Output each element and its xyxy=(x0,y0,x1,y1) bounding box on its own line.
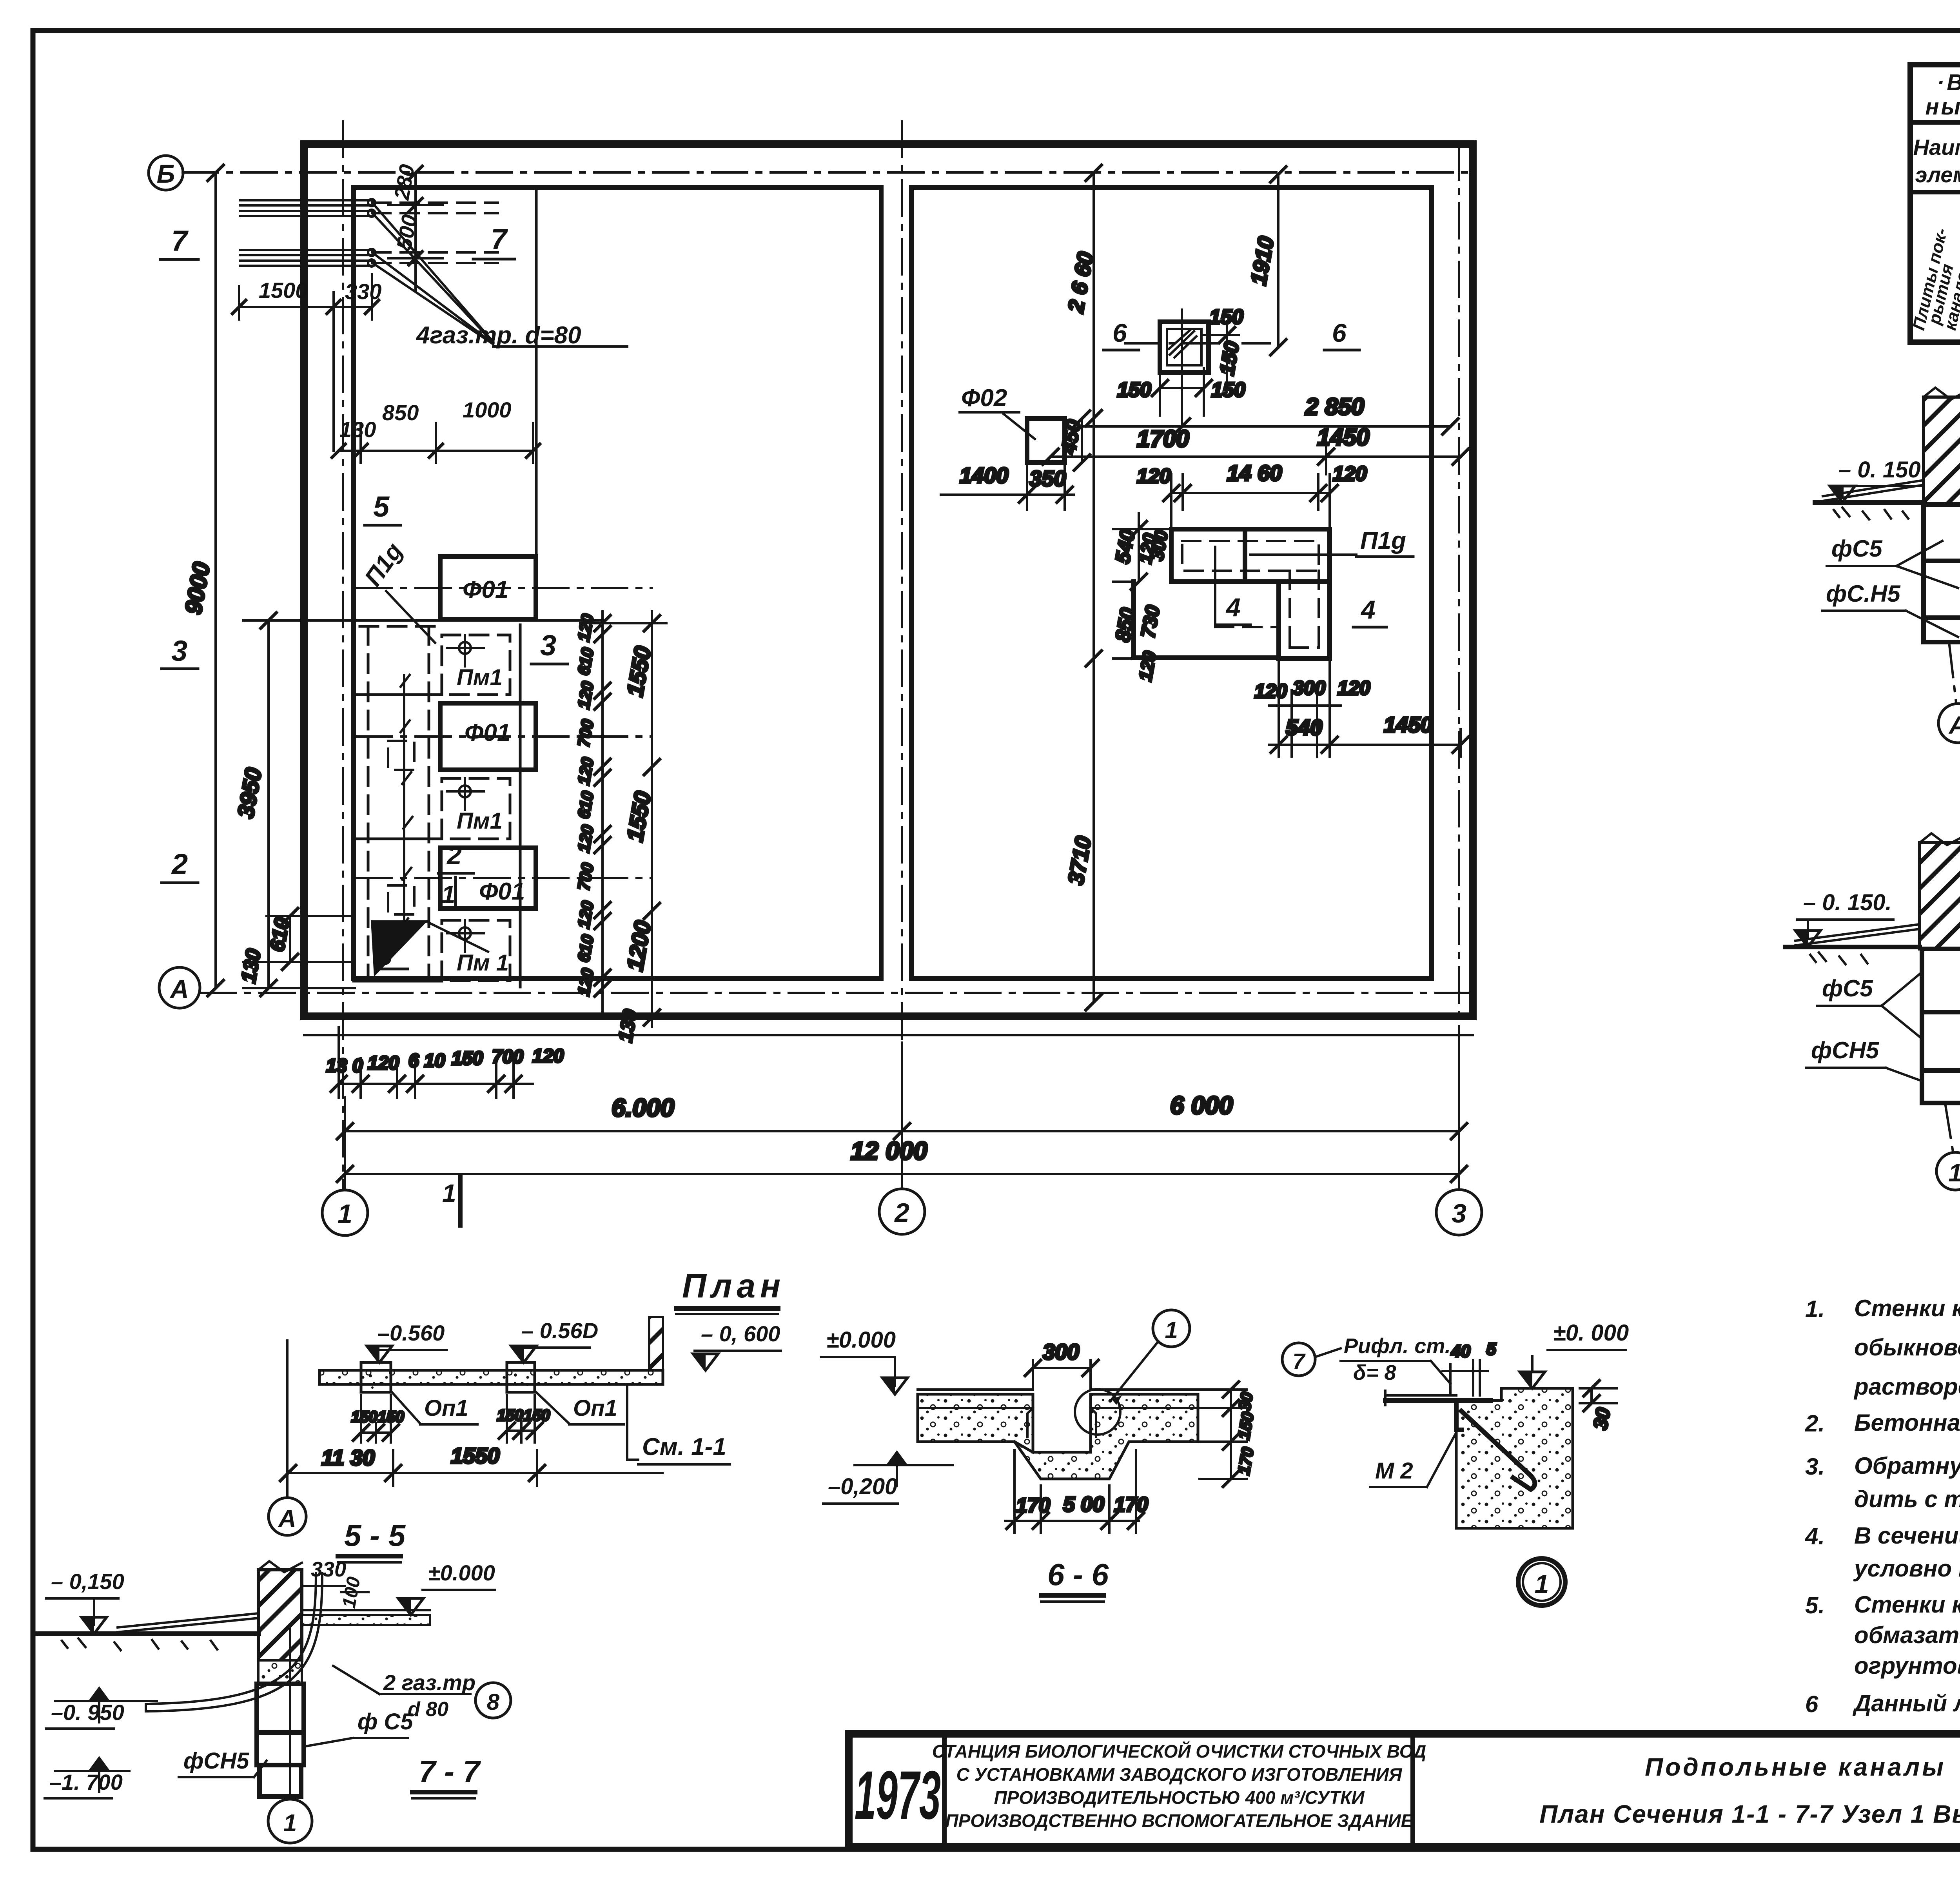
svg-text:1: 1 xyxy=(1948,1159,1960,1187)
section mark 2 left xyxy=(162,848,198,883)
foundation blocks xyxy=(1924,504,1960,642)
ground line xyxy=(34,1613,258,1650)
dims below L channel xyxy=(1254,659,1468,756)
svg-text:120: 120 xyxy=(1254,680,1287,702)
axis B circle xyxy=(149,156,183,190)
svg-text:150: 150 xyxy=(524,1407,550,1424)
svg-text:1550: 1550 xyxy=(451,1443,500,1468)
axis circle 3 xyxy=(1436,1190,1482,1235)
svg-text:1: 1 xyxy=(1165,1317,1178,1343)
svg-text:А: А xyxy=(278,1505,296,1532)
channel slash marks xyxy=(399,675,412,930)
svg-text:5: 5 xyxy=(1486,1339,1496,1359)
svg-text:3: 3 xyxy=(171,635,187,667)
svg-text:12 000: 12 000 xyxy=(851,1137,927,1165)
elevation -0.600 xyxy=(693,1321,781,1370)
svg-text:6: 6 xyxy=(1332,318,1347,347)
right room inner wall xyxy=(911,187,1432,978)
svg-text:30: 30 xyxy=(1589,1406,1615,1431)
dim 1910 2660 verticals xyxy=(1063,165,1286,1010)
dim 280 500 vertical xyxy=(388,163,443,290)
floor slab xyxy=(302,1615,430,1625)
label P1g slanted xyxy=(359,538,435,643)
dim 120 1460 120 xyxy=(1137,461,1367,533)
left dims of L channel xyxy=(1111,513,1172,683)
svg-text:3: 3 xyxy=(1452,1199,1466,1228)
circle 1 xyxy=(1936,1103,1960,1190)
svg-text:120: 120 xyxy=(1333,463,1367,485)
svg-text:4газ.тр. d=80: 4газ.тр. d=80 xyxy=(416,322,581,349)
svg-text:6.000: 6.000 xyxy=(612,1094,674,1122)
right room: hatch square 6-6 xyxy=(1125,310,1270,427)
svg-text:4.: 4. xyxy=(1805,1523,1825,1549)
svg-text:2 850: 2 850 xyxy=(1305,394,1364,420)
svg-text:3.: 3. xyxy=(1805,1453,1825,1480)
title 5-5 xyxy=(338,1518,406,1562)
svg-text:Оп1: Оп1 xyxy=(424,1395,468,1421)
circle 1 xyxy=(268,1625,312,1843)
svg-text:2 газ.тр: 2 газ.тр xyxy=(383,1670,475,1695)
svg-text:Ф01: Ф01 xyxy=(465,719,510,746)
label fCH5 xyxy=(179,1748,267,1777)
elevation -0.950 xyxy=(46,1686,157,1729)
svg-text:–0.560: –0.560 xyxy=(377,1321,445,1345)
label P1g right xyxy=(1250,527,1413,557)
svg-text:±0. 000: ±0. 000 xyxy=(1553,1320,1629,1346)
elevation -0.560 right xyxy=(511,1318,598,1362)
svg-text:ПРОИЗВОДИТЕЛЬНОСТЬЮ 400 м³/СУТ: ПРОИЗВОДИТЕЛЬНОСТЬЮ 400 м³/СУТКИ xyxy=(994,1787,1365,1808)
svg-text:5: 5 xyxy=(377,940,393,971)
svg-text:330: 330 xyxy=(345,279,381,304)
label fS5 xyxy=(1827,535,1958,588)
left room inner wall xyxy=(354,187,881,978)
axis B line xyxy=(183,171,1473,174)
4-4 labels xyxy=(1217,593,1387,627)
svg-text:С УСТАНОВКАМИ ЗАВОДСКОГО ИЗГОТ: С УСТАНОВКАМИ ЗАВОДСКОГО ИЗГОТОВЛЕНИЯ xyxy=(956,1764,1403,1785)
dim 1500 330 xyxy=(231,274,381,451)
svg-text:План Сечения 1-1 - 7-7 Уз: План Сечения 1-1 - 7-7 Узел 1 Выборка xyxy=(1539,1800,1960,1828)
elevation -0.150 xyxy=(46,1569,124,1634)
svg-text:150: 150 xyxy=(1209,306,1243,328)
svg-text:фС5: фС5 xyxy=(1822,975,1873,1001)
svg-text:5: 5 xyxy=(373,490,390,523)
svg-text:120: 120 xyxy=(1338,677,1370,699)
svg-text:В сечений 5-5 плиты покрыт: В сечений 5-5 плиты покрытия канала xyxy=(1854,1522,1960,1549)
svg-text:6: 6 xyxy=(1805,1691,1818,1717)
svg-text:2: 2 xyxy=(894,1198,909,1228)
ground line xyxy=(1785,924,1920,964)
label M2 xyxy=(1370,1435,1455,1487)
axis circle 1 xyxy=(322,1190,368,1235)
svg-text:См. 1-1: См. 1-1 xyxy=(642,1433,726,1460)
svg-text:·Выборка сборных железобетон: ·Выборка сборных железобетон- xyxy=(1937,70,1960,95)
svg-text:7: 7 xyxy=(171,225,189,257)
svg-text:дить с тщательным послойны: дить с тщательным послойным уплотнением. xyxy=(1854,1486,1960,1512)
dim chain A 120-610 xyxy=(574,611,610,1018)
svg-text:1973: 1973 xyxy=(855,1757,941,1834)
svg-text:ПРОИЗВОДСТВЕННО ВСПОМОГАТЕЛЬНО: ПРОИЗВОДСТВЕННО ВСПОМОГАТЕЛЬНОЕ ЗДАНИЕ xyxy=(946,1810,1414,1831)
vertical line right of F01 column xyxy=(535,187,538,557)
svg-text:СТАНЦИЯ БИОЛОГИЧЕСКОЙ ОЧИСТКИ: СТАНЦИЯ БИОЛОГИЧЕСКОЙ ОЧИСТКИ СТОЧНЫХ ВО… xyxy=(932,1741,1426,1761)
section mark 7 left xyxy=(160,225,198,259)
svg-text:–0. 950: –0. 950 xyxy=(51,1700,124,1725)
svg-text:Рифл. ст.: Рифл. ст. xyxy=(1344,1334,1451,1358)
svg-text:150: 150 xyxy=(497,1407,523,1424)
slab xyxy=(319,1370,663,1384)
axis 3 line xyxy=(1458,144,1460,1190)
title 6-6 xyxy=(1041,1557,1109,1602)
elevation +-0.000 xyxy=(398,1560,495,1615)
dim 12.000 xyxy=(337,1039,1467,1188)
concrete block xyxy=(1456,1388,1573,1528)
svg-text:1: 1 xyxy=(283,1810,297,1837)
dims around hatch square xyxy=(1117,306,1245,415)
svg-text:условно не показаны.: условно не показаны. xyxy=(1853,1555,1960,1582)
svg-text:14 60: 14 60 xyxy=(1227,461,1282,485)
svg-text:120: 120 xyxy=(532,1046,564,1067)
svg-text:6 000: 6 000 xyxy=(1170,1091,1233,1119)
right pillar hatched xyxy=(649,1317,663,1370)
svg-text:1000: 1000 xyxy=(463,397,512,422)
elevation -0.150 xyxy=(1830,457,1923,503)
dim chain B 1550 xyxy=(580,611,666,1044)
svg-text:Ф02: Ф02 xyxy=(961,385,1007,412)
dim 1130 1550 xyxy=(280,1443,662,1486)
dim 2850 xyxy=(1080,394,1458,434)
F02 square xyxy=(960,385,1065,463)
title block xyxy=(849,1734,1960,1847)
wall hatched xyxy=(258,1570,302,1660)
pipes curved xyxy=(146,1573,322,1711)
dims 40 5 xyxy=(1443,1339,1496,1395)
gas pipes xyxy=(240,199,498,267)
svg-text:фС5: фС5 xyxy=(1831,535,1883,562)
callout circle 1 xyxy=(1112,1310,1190,1405)
Pm1 square 3 xyxy=(442,920,510,981)
svg-text:1: 1 xyxy=(442,1179,456,1207)
title 7-7 xyxy=(412,1754,481,1798)
svg-text:фСН5: фСН5 xyxy=(183,1748,249,1774)
svg-text:Оп1: Оп1 xyxy=(573,1395,617,1421)
svg-text:1450: 1450 xyxy=(1317,424,1369,450)
svg-text:А: А xyxy=(1948,711,1960,739)
foundation blocks xyxy=(1922,949,1960,1103)
svg-text:130: 130 xyxy=(339,417,376,442)
elevation -0.200 xyxy=(823,1450,953,1504)
labels Op1 xyxy=(392,1392,477,1424)
dim 300 xyxy=(1025,1339,1098,1388)
F01 block 1 xyxy=(440,557,536,619)
svg-text:5 00: 5 00 xyxy=(1063,1493,1104,1516)
svg-text:Пм 1: Пм 1 xyxy=(457,950,509,976)
svg-text:540: 540 xyxy=(1286,715,1322,740)
elevation -1.700 xyxy=(45,1756,129,1798)
elevation -0.560 left xyxy=(367,1321,447,1362)
svg-text:300: 300 xyxy=(1293,677,1326,699)
svg-text:850: 850 xyxy=(382,400,419,425)
Pm1 square 2 xyxy=(442,778,510,839)
label fC5 xyxy=(304,1709,413,1747)
svg-text:8: 8 xyxy=(487,1689,500,1715)
svg-text:– 0. 150.: – 0. 150. xyxy=(1803,890,1892,915)
svg-text:–0,200: –0,200 xyxy=(828,1474,897,1499)
svg-text:1: 1 xyxy=(1535,1569,1549,1598)
svg-text:Стенки каналов, соприкасаю: Стенки каналов, соприкасающиеся с грунто… xyxy=(1854,1591,1960,1618)
footing line below plan xyxy=(304,1034,1473,1036)
svg-text:1.: 1. xyxy=(1805,1296,1825,1322)
circle A xyxy=(1938,642,1960,743)
svg-text:П1g: П1g xyxy=(1360,527,1406,554)
section cut 1 mark bottom xyxy=(442,1176,460,1225)
svg-text:План: План xyxy=(682,1267,785,1305)
svg-text:330: 330 xyxy=(311,1558,346,1581)
svg-text:150: 150 xyxy=(452,1048,483,1069)
svg-text:±0.000: ±0.000 xyxy=(826,1327,896,1353)
Pm1 square 1 xyxy=(442,635,510,695)
svg-text:6: 6 xyxy=(1112,318,1127,347)
svg-text:120: 120 xyxy=(1137,465,1171,488)
svg-text:Б: Б xyxy=(157,159,175,188)
svg-text:А: А xyxy=(169,974,189,1003)
svg-text:Пм1: Пм1 xyxy=(457,665,503,690)
elevation -0.150 xyxy=(1795,890,1893,947)
steel plate xyxy=(1385,1391,1535,1489)
F01 block 3 xyxy=(440,848,536,909)
svg-text:огрунтовке: огрунтовке xyxy=(1854,1653,1960,1679)
dim 130 850 1000 xyxy=(331,397,541,463)
plan title xyxy=(676,1267,785,1314)
section mark 7 in plan xyxy=(473,223,515,259)
notes list xyxy=(1805,1295,1960,1717)
svg-text:– 0,150: – 0,150 xyxy=(51,1569,124,1594)
dim 1700 1450 xyxy=(1043,424,1468,474)
svg-text:7: 7 xyxy=(491,223,508,256)
detail circle xyxy=(1075,1389,1120,1435)
svg-text:элем.: элем. xyxy=(1915,162,1960,187)
top screed lines xyxy=(918,1390,1198,1437)
svg-text:Бетонная подготовка из бе: Бетонная подготовка из бетона марки 50 xyxy=(1854,1410,1960,1436)
label fS5 xyxy=(1817,972,1922,1039)
svg-text:170: 170 xyxy=(1114,1493,1148,1516)
svg-text:фСН5: фСН5 xyxy=(1811,1037,1880,1063)
svg-text:3: 3 xyxy=(540,629,556,662)
section mark 2 / 1 at F01-3 xyxy=(438,840,474,909)
black wedge xyxy=(371,920,488,977)
svg-text:1: 1 xyxy=(338,1199,352,1229)
left vertical dim 3950 xyxy=(233,613,604,996)
svg-text:5 - 5: 5 - 5 xyxy=(344,1518,406,1553)
svg-text:2: 2 xyxy=(446,840,462,870)
dim 6.000 6.000 xyxy=(337,1091,1467,1139)
label fSN5 xyxy=(1806,1037,1922,1081)
concrete pad xyxy=(258,1660,302,1684)
axis circle 2 xyxy=(879,1189,925,1234)
elevation +-0.000 xyxy=(821,1327,907,1394)
F01 axis dash-dot lines xyxy=(357,588,652,878)
svg-text:растворе марки 25.: растворе марки 25. xyxy=(1853,1373,1960,1400)
svg-text:13 0: 13 0 xyxy=(326,1056,363,1076)
svg-text:700: 700 xyxy=(492,1047,523,1067)
svg-text:1700: 1700 xyxy=(1137,426,1189,452)
svg-text:120: 120 xyxy=(368,1053,399,1074)
svg-text:– 0, 600: – 0, 600 xyxy=(701,1321,780,1346)
svg-text:Ф01: Ф01 xyxy=(463,576,508,603)
section mark 3 in plan xyxy=(531,629,568,664)
svg-text:11 30: 11 30 xyxy=(321,1445,375,1470)
svg-text:Ф01: Ф01 xyxy=(479,878,525,905)
svg-text:Подпольные каналы: Подпольные каналы xyxy=(1645,1753,1946,1781)
svg-text:Обратную засыпку пазух: Обратную засыпку пазух грунтом произво- xyxy=(1854,1453,1960,1479)
F01 block 2 xyxy=(440,703,536,770)
svg-text:170: 170 xyxy=(1016,1494,1050,1517)
left vertical dim 610 130 xyxy=(237,908,355,988)
label 2 gaz.tr d80 + circle 8 xyxy=(333,1666,511,1721)
svg-text:6 10: 6 10 xyxy=(408,1050,445,1071)
foundation blocks xyxy=(257,1684,304,1796)
right dim 30 xyxy=(1580,1381,1617,1431)
svg-text:150: 150 xyxy=(351,1408,377,1426)
svg-text:2: 2 xyxy=(171,848,188,880)
label fS.N5 xyxy=(1822,581,1958,637)
project description xyxy=(932,1741,1426,1831)
channel partitions xyxy=(354,695,442,981)
svg-text:1450: 1450 xyxy=(1384,712,1433,737)
section mark 3 left xyxy=(162,635,198,669)
circle 7 + label rifl st xyxy=(1282,1334,1451,1384)
dims 150 150 xyxy=(351,1395,550,1442)
dims 170 500 170 xyxy=(1005,1450,1148,1533)
svg-text:150: 150 xyxy=(1211,379,1245,401)
svg-text:5.: 5. xyxy=(1805,1592,1825,1618)
svg-text:6 - 6: 6 - 6 xyxy=(1047,1557,1109,1592)
table of precast elements xyxy=(1909,65,1960,342)
plan outer wall xyxy=(304,144,1473,1016)
svg-text:обмазать горячим битумом: обмазать горячим битумом за 2 раза по xyxy=(1854,1622,1960,1648)
svg-text:4: 4 xyxy=(1225,593,1241,622)
channel dashed walls xyxy=(360,626,435,976)
elevation +-0.000 xyxy=(1520,1320,1629,1388)
axis A circle xyxy=(159,967,200,1008)
dims 1400 350 450 xyxy=(941,411,1090,510)
bottom dim chain 130 120 610 150 700 120 xyxy=(326,1027,564,1098)
L-shaped channel xyxy=(1134,529,1330,659)
svg-text:350: 350 xyxy=(1029,466,1066,491)
trough bottom line xyxy=(1014,1442,1033,1452)
svg-text:7 - 7: 7 - 7 xyxy=(419,1754,481,1789)
svg-text:1400: 1400 xyxy=(960,463,1009,488)
svg-text:150: 150 xyxy=(1117,379,1151,401)
Op1 block 1 xyxy=(361,1362,391,1392)
svg-text:фС.Н5: фС.Н5 xyxy=(1826,581,1901,607)
dim 330 100 xyxy=(302,1558,368,1610)
svg-text:7: 7 xyxy=(1292,1349,1306,1373)
6-6 labels xyxy=(1103,318,1359,350)
svg-text:Стенки каналов из кирпича: Стенки каналов из кирпича глиняного xyxy=(1854,1295,1960,1321)
right vertical dims 30 150 170 xyxy=(1200,1382,1257,1487)
svg-text:ф С5: ф С5 xyxy=(358,1709,413,1734)
axis 2 line xyxy=(901,122,903,1189)
svg-text:М 2: М 2 xyxy=(1375,1458,1413,1484)
svg-text:d 80: d 80 xyxy=(408,1698,448,1721)
uzel 1 double circle xyxy=(1518,1558,1565,1605)
svg-text:– 0.56D: – 0.56D xyxy=(521,1318,598,1343)
svg-text:Данный лист смотри со: Данный лист смотри совместно с листом КС… xyxy=(1852,1690,1960,1716)
svg-text:4: 4 xyxy=(1360,595,1376,624)
svg-text:ных элем. и монолитных участк: ных элем. и монолитных участков xyxy=(1925,94,1960,120)
svg-text:δ= 8: δ= 8 xyxy=(1353,1361,1396,1384)
Sm 1-1 xyxy=(627,1384,730,1464)
svg-text:2.: 2. xyxy=(1805,1410,1825,1437)
svg-text:40: 40 xyxy=(1451,1342,1470,1361)
ground line xyxy=(1815,480,1924,519)
svg-text:30: 30 xyxy=(1235,1391,1256,1412)
svg-text:150: 150 xyxy=(378,1408,404,1426)
svg-text:300: 300 xyxy=(1043,1339,1079,1364)
svg-text:– 0. 150: – 0. 150 xyxy=(1838,457,1921,483)
svg-text:–1. 700: –1. 700 xyxy=(49,1770,123,1794)
axis A line xyxy=(201,992,1473,994)
axis 1 line xyxy=(342,122,344,1190)
left vertical dim 9000 xyxy=(180,165,223,996)
svg-text:обыкновенного марки 75 н: обыкновенного марки 75 на цементном xyxy=(1854,1334,1960,1361)
svg-text:Наим.: Наим. xyxy=(1913,135,1960,160)
wall hatched xyxy=(1920,833,1960,949)
svg-text:1: 1 xyxy=(441,880,456,909)
circle A axis xyxy=(269,1341,306,1535)
svg-text:1500: 1500 xyxy=(259,278,308,303)
section mark 5 top xyxy=(365,490,401,525)
gas pipe leaders xyxy=(373,204,627,346)
Op1 block 2 xyxy=(507,1362,535,1392)
concrete body xyxy=(918,1394,1198,1479)
svg-text:±0.000: ±0.000 xyxy=(428,1560,495,1585)
svg-text:Пм1: Пм1 xyxy=(457,808,503,834)
wall hatched xyxy=(1924,388,1960,504)
channel small dashed boxes xyxy=(388,741,414,770)
